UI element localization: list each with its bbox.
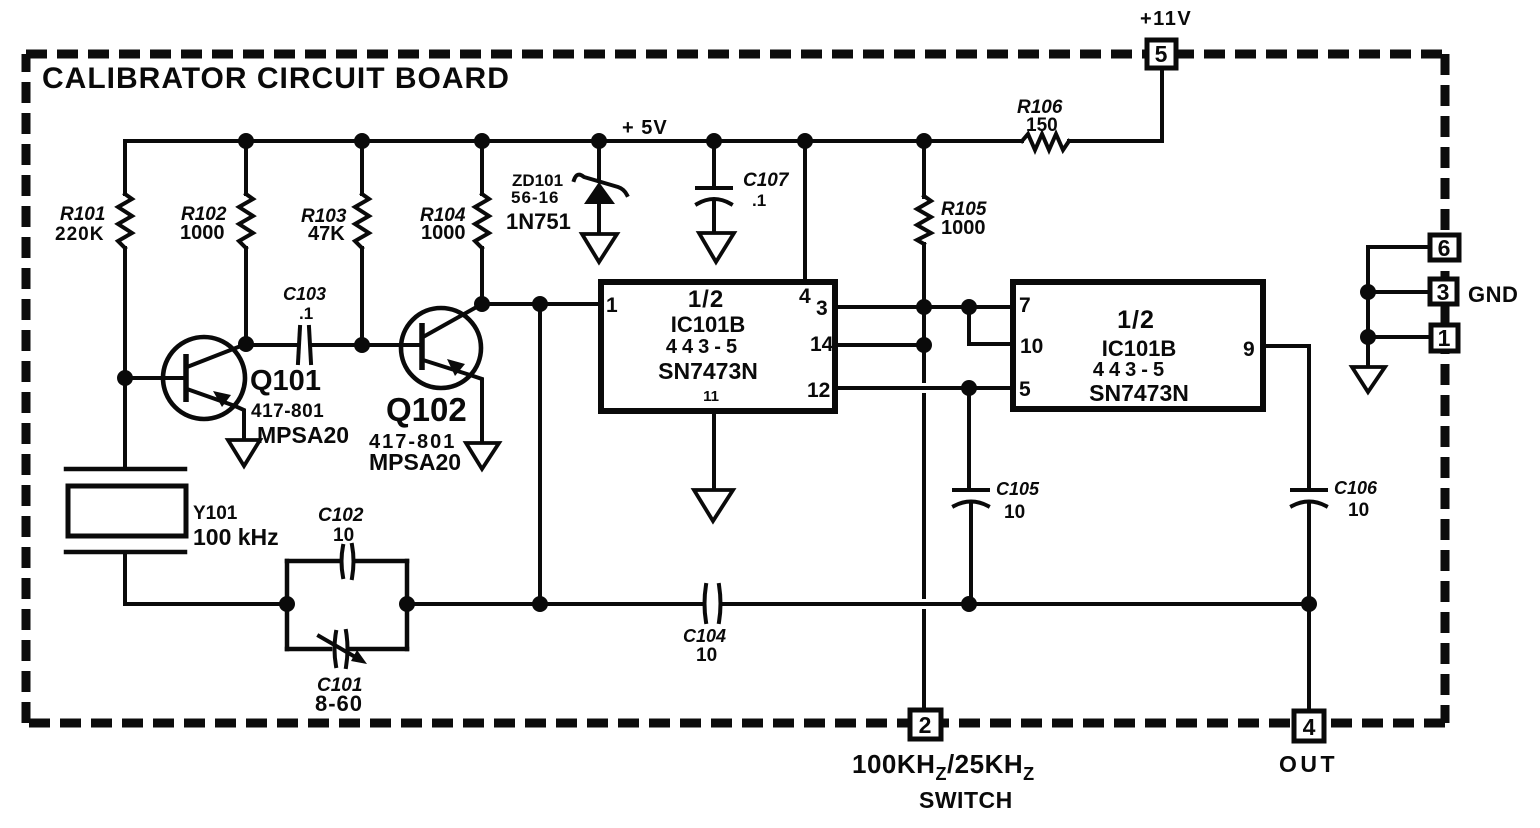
svg-text:Q101: Q101 [250,365,321,397]
svg-text:R101: R101 [60,204,105,225]
svg-text:2: 2 [919,712,932,738]
svg-text:1000: 1000 [941,217,986,239]
svg-text:10: 10 [333,525,354,546]
svg-text:3: 3 [1437,279,1450,305]
svg-text:GND: GND [1468,282,1518,307]
svg-text:4: 4 [799,285,811,308]
svg-text:10: 10 [1348,500,1369,521]
svg-text:C107: C107 [743,170,790,191]
svg-text:5: 5 [1019,378,1031,401]
svg-text:SN7473N: SN7473N [1089,380,1189,406]
svg-text:SN7473N: SN7473N [658,358,758,384]
svg-text:.1: .1 [752,191,766,210]
svg-text:C104: C104 [683,626,726,646]
svg-text:C102: C102 [318,505,364,526]
svg-text:220K: 220K [55,224,104,245]
svg-text:417-801: 417-801 [251,401,324,422]
svg-text:443-5: 443-5 [666,336,742,358]
svg-text:443-5: 443-5 [1093,359,1169,381]
svg-text:5: 5 [1155,41,1168,67]
svg-text:6: 6 [1438,235,1451,261]
svg-text:56-16: 56-16 [511,188,559,207]
svg-text:C106: C106 [1334,478,1378,498]
svg-text:+11V: +11V [1140,8,1192,30]
svg-text:Q102: Q102 [386,391,467,428]
svg-text:IC101B: IC101B [1102,336,1177,361]
svg-text:MPSA20: MPSA20 [257,422,349,448]
svg-text:C103: C103 [283,284,326,304]
svg-text:10: 10 [696,645,717,666]
svg-text:1N751: 1N751 [506,209,571,234]
svg-text:MPSA20: MPSA20 [369,449,461,475]
svg-text:10: 10 [1004,502,1025,523]
svg-text:.1: .1 [299,304,313,323]
svg-text:1000: 1000 [421,222,466,244]
svg-text:47K: 47K [308,223,345,245]
svg-text:10: 10 [1020,335,1043,358]
svg-text:1: 1 [606,294,618,317]
svg-text:OUT: OUT [1279,751,1338,777]
svg-text:9: 9 [1243,338,1255,361]
svg-text:4: 4 [1303,714,1316,740]
svg-text:150: 150 [1026,115,1058,136]
svg-text:100 kHz: 100 kHz [193,524,279,550]
svg-text:11: 11 [703,388,719,405]
svg-text:12: 12 [807,379,830,402]
svg-text:+ 5V: + 5V [622,117,668,139]
svg-text:14: 14 [810,333,834,356]
svg-text:8-60: 8-60 [315,691,363,716]
svg-text:C105: C105 [996,479,1040,499]
svg-text:Y101: Y101 [193,503,238,524]
svg-text:1/2: 1/2 [1117,306,1155,334]
svg-text:3: 3 [816,297,828,320]
svg-text:1/2: 1/2 [688,286,724,313]
svg-text:IC101B: IC101B [671,312,746,337]
svg-text:CALIBRATOR CIRCUIT BOARD: CALIBRATOR CIRCUIT BOARD [42,62,510,95]
svg-text:1: 1 [1438,325,1451,351]
svg-text:SWITCH: SWITCH [919,787,1013,813]
svg-text:1000: 1000 [180,222,225,244]
svg-text:7: 7 [1019,294,1031,317]
